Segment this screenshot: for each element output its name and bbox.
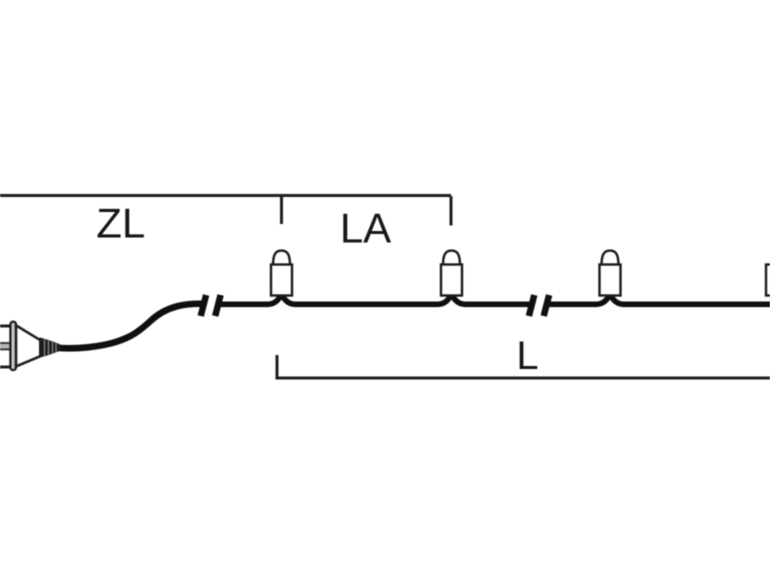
lead cable from plug (S-curve)	[57, 304, 203, 349]
lamp 3 (dome + socket)	[600, 251, 621, 296]
dimension bracket L (bottom)	[277, 355, 770, 378]
svg-text:LA: LA	[340, 205, 391, 252]
wire break mark 1 (slash pair)	[201, 295, 221, 316]
wire break mark 2 (slash pair)	[529, 295, 549, 316]
plug face collar (capsule)	[10, 322, 16, 371]
lamp 4 (partial, clipped at right edge)	[766, 265, 770, 296]
main wire segment 1 (break 1 to break 2) with lamp bumps	[219, 294, 531, 304]
svg-text:ZL: ZL	[96, 200, 145, 247]
lamp 2 (dome + socket)	[441, 251, 462, 296]
main wire segment 2 (break 2 to right edge) with lamp bumps	[547, 294, 770, 304]
strain relief (ribbed grommet)	[39, 337, 61, 357]
tick at lamp 1 (ZL/LA divider)	[280, 196, 283, 224]
svg-text:L: L	[516, 334, 538, 378]
plug cone body	[16, 325, 40, 366]
tick at lamp 2 (LA end)	[450, 196, 453, 226]
dimension bracket ZL/LA top line	[0, 194, 451, 197]
plug pin	[0, 343, 11, 349]
lamp 1 (dome + socket)	[271, 251, 292, 296]
plug body (box, clipped at left edge)	[0, 326, 13, 367]
